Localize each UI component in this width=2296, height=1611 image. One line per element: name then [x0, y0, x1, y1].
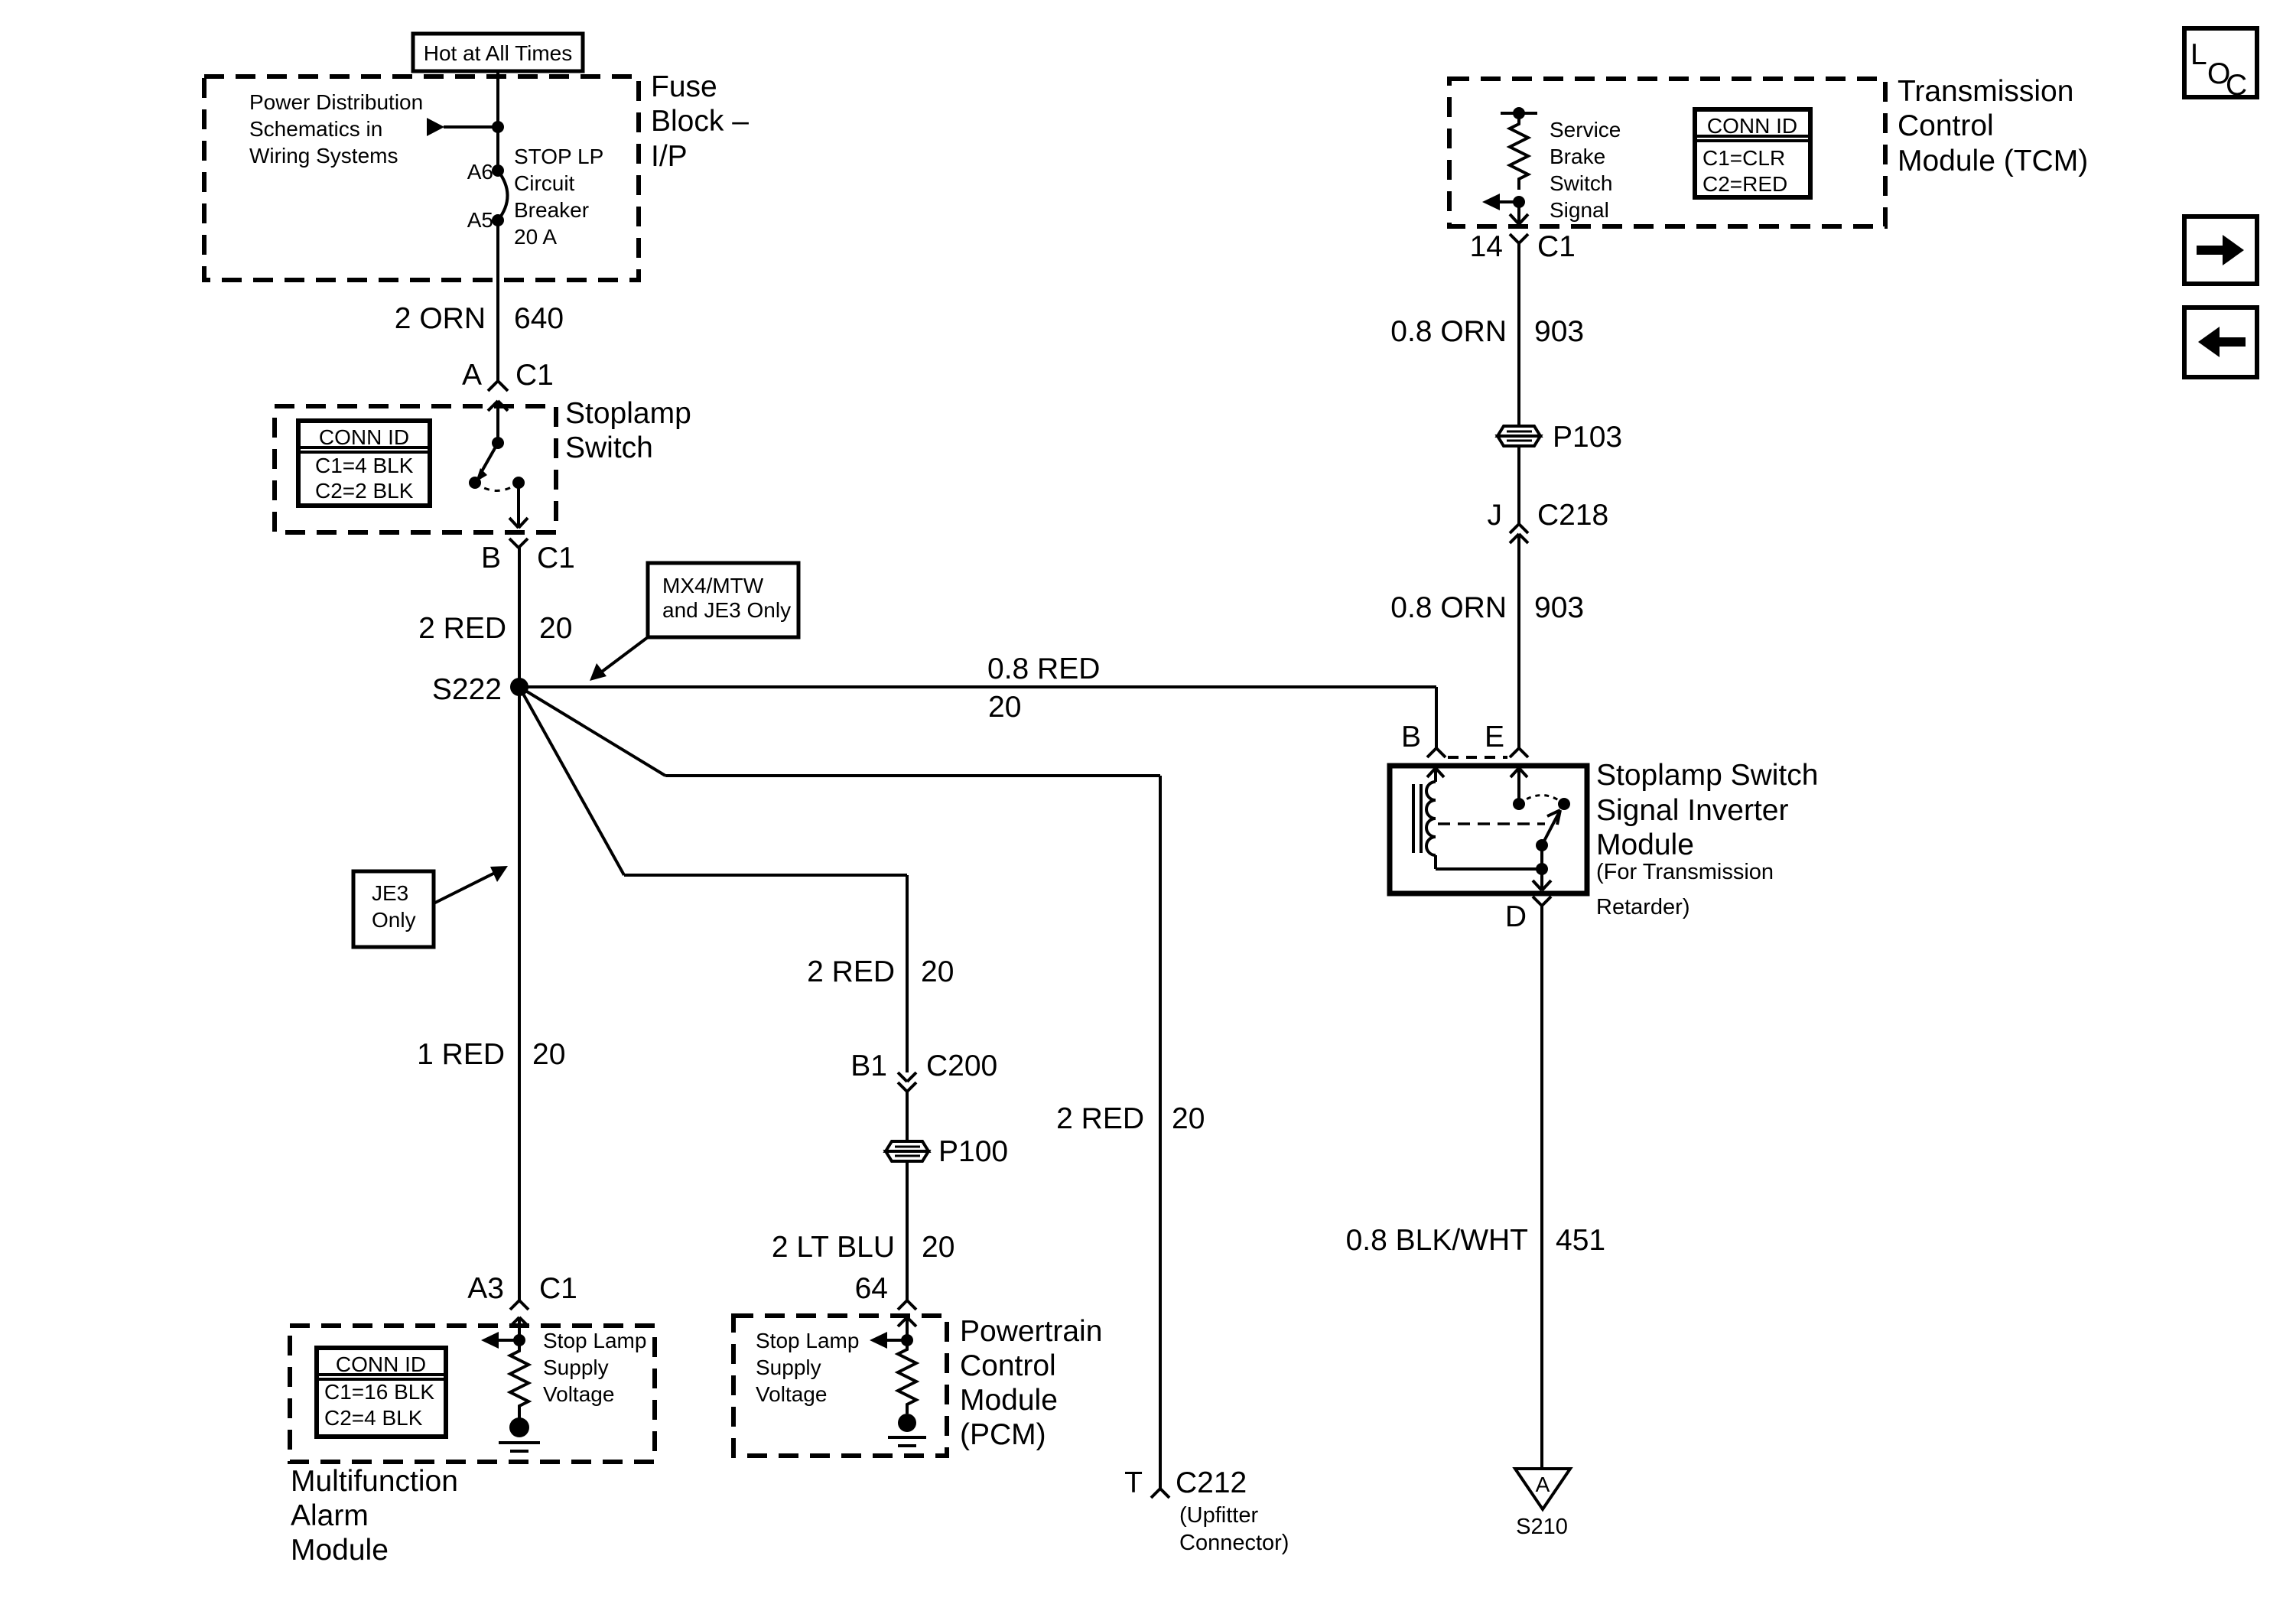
svg-text:CONN ID: CONN ID — [319, 425, 409, 449]
CONN ID table (stoplamp switch) — [298, 421, 430, 506]
svg-text:A: A — [1536, 1473, 1550, 1496]
svg-text:903: 903 — [1534, 315, 1584, 348]
svg-text:E: E — [1485, 721, 1504, 753]
svg-text:Module: Module — [1596, 828, 1694, 861]
connector J / C218 — [1510, 524, 1528, 543]
Multifunction Alarm Module dashed box — [290, 1326, 655, 1462]
svg-text:C1=CLR: C1=CLR — [1702, 146, 1785, 170]
svg-text:A3: A3 — [467, 1272, 504, 1305]
svg-text:0.8 RED: 0.8 RED — [987, 653, 1100, 685]
connector T / C212 — [1151, 1489, 1169, 1498]
wire label 2 RED 20 — [418, 612, 572, 645]
svg-text:20: 20 — [921, 955, 954, 988]
switch contact dot left — [469, 477, 481, 489]
svg-text:Voltage: Voltage — [543, 1382, 614, 1406]
CONN ID table (TCM) — [1695, 109, 1810, 197]
svg-text:20: 20 — [532, 1038, 565, 1071]
svg-text:C1: C1 — [515, 359, 554, 392]
svg-text:Service: Service — [1550, 118, 1621, 142]
svg-text:0.8 BLK/WHT: 0.8 BLK/WHT — [1346, 1224, 1528, 1257]
svg-text:C1: C1 — [539, 1272, 577, 1305]
MX4/MTW and JE3 Only callout box — [648, 563, 798, 637]
svg-text:Stop Lamp: Stop Lamp — [756, 1329, 859, 1352]
label: Service Brake Switch Signal — [1550, 118, 1621, 222]
wire: D down to S210 — [1540, 906, 1543, 1469]
svg-text:D: D — [1505, 900, 1527, 933]
svg-text:A: A — [462, 359, 482, 392]
pass-through grommet P103 — [1498, 426, 1540, 446]
svg-text:20: 20 — [988, 691, 1021, 724]
left arrow legend box — [2184, 308, 2257, 377]
Stoplamp Switch dashed box — [275, 406, 556, 532]
arrow: power distribution reference to wire — [427, 118, 498, 136]
inverter: pivot to common junction — [1540, 845, 1543, 869]
svg-text:(For Transmission: (For Transmission — [1596, 860, 1774, 884]
svg-text:2 RED: 2 RED — [1056, 1102, 1144, 1135]
label: Multifunction Alarm Module — [291, 1465, 458, 1567]
label (Upfitter Connector) — [1179, 1503, 1289, 1555]
inverter: moving contact dot — [1558, 798, 1570, 810]
inverter: E pin arrow inside box — [1511, 768, 1527, 804]
svg-text:Stop Lamp: Stop Lamp — [543, 1329, 646, 1352]
wire: B to S222 — [518, 548, 521, 687]
svg-text:2 LT BLU: 2 LT BLU — [772, 1231, 895, 1264]
svg-text:MX4/MTW: MX4/MTW — [662, 574, 764, 597]
arrow from JE3 box to wire — [434, 866, 508, 903]
dashed connector line between B and E — [1448, 756, 1507, 759]
svg-text:Power Distribution: Power Distribution — [249, 90, 423, 114]
connector B into inverter — [1427, 748, 1446, 757]
label: Powertrain Control Module (PCM) — [960, 1315, 1102, 1451]
svg-text:Multifunction: Multifunction — [291, 1465, 458, 1498]
wire with down arrow to TCM box edge — [1510, 202, 1528, 224]
resistor inside PCM — [898, 1340, 916, 1414]
LOC legend box — [2184, 28, 2257, 102]
svg-text:P103: P103 — [1553, 421, 1622, 454]
splice S222 — [510, 678, 528, 696]
label: Stop Lamp Supply Voltage (alarm module) — [543, 1329, 646, 1406]
right arrow legend box — [2184, 216, 2257, 284]
svg-text:14: 14 — [1470, 230, 1503, 263]
svg-text:Block –: Block – — [651, 105, 749, 138]
svg-text:L: L — [2190, 38, 2207, 71]
wire: C1 down to P103 — [1517, 243, 1520, 426]
svg-text:C1: C1 — [537, 542, 575, 574]
left arrow inside module — [481, 1332, 519, 1349]
wire label 1 RED 20 — [417, 1038, 565, 1071]
svg-text:C200: C200 — [926, 1050, 997, 1082]
connector E into inverter — [1510, 748, 1528, 757]
svg-text:Alarm: Alarm — [291, 1499, 369, 1532]
wire label 0.8 RED / 20 — [987, 653, 1100, 724]
svg-text:Module (TCM): Module (TCM) — [1898, 145, 2088, 177]
svg-text:CONN ID: CONN ID — [336, 1352, 426, 1376]
svg-text:Powertrain: Powertrain — [960, 1315, 1102, 1348]
svg-text:C1: C1 — [1537, 230, 1576, 263]
wire: P103 to J C218 — [1517, 446, 1520, 524]
switch arm with arrowhead — [476, 443, 498, 482]
svg-text:C2=RED: C2=RED — [1702, 172, 1787, 196]
svg-text:Transmission: Transmission — [1898, 75, 2073, 108]
svg-text:T: T — [1124, 1466, 1143, 1499]
wire: S222 down to multifunction alarm module — [518, 687, 521, 1300]
wire: S222 diagonal to C212 branch — [519, 687, 1160, 1489]
inverter: coil core bars — [1413, 784, 1421, 853]
circuit breaker pin A5 — [492, 214, 504, 226]
junction dot inside module — [513, 1334, 525, 1346]
svg-text:2 RED: 2 RED — [807, 955, 895, 988]
Fuse Block I/P dashed box — [204, 76, 639, 280]
svg-text:Signal Inverter: Signal Inverter — [1596, 794, 1788, 827]
wire: A5 to connector A/C1 — [496, 220, 499, 381]
left arrow inside PCM — [870, 1332, 907, 1349]
svg-text:640: 640 — [514, 302, 564, 335]
connector 64 into PCM — [898, 1300, 916, 1340]
svg-text:Supply: Supply — [756, 1356, 821, 1379]
inverter: B pin arrow inside box — [1427, 768, 1444, 782]
svg-text:Switch: Switch — [1550, 171, 1612, 195]
svg-text:CONN ID: CONN ID — [1707, 114, 1797, 138]
svg-text:STOP LP: STOP LP — [514, 145, 603, 168]
svg-text:Module: Module — [291, 1534, 389, 1567]
svg-text:J: J — [1488, 499, 1503, 532]
ground reference triangle A — [1515, 1469, 1570, 1509]
connector B1 / C200 — [898, 1072, 916, 1092]
svg-text:A6: A6 — [467, 160, 493, 184]
svg-text:20 A: 20 A — [514, 225, 557, 249]
inverter: mechanical dashed link — [1438, 822, 1545, 825]
svg-text:0.8 ORN: 0.8 ORN — [1390, 315, 1507, 348]
svg-text:Switch: Switch — [565, 431, 653, 464]
svg-text:Signal: Signal — [1550, 198, 1609, 222]
resistor inside TCM — [1510, 113, 1528, 190]
arrow from MX4 box to S222 wire — [590, 637, 648, 681]
resistor inside multifunction module — [510, 1340, 528, 1418]
svg-text:451: 451 — [1556, 1224, 1605, 1257]
svg-text:903: 903 — [1534, 591, 1584, 624]
svg-text:B: B — [481, 542, 501, 574]
svg-text:20: 20 — [539, 612, 572, 645]
svg-text:Stoplamp Switch: Stoplamp Switch — [1596, 759, 1818, 792]
svg-text:2 RED: 2 RED — [418, 612, 506, 645]
svg-text:(PCM): (PCM) — [960, 1418, 1046, 1451]
switch dashed travel arc — [475, 483, 519, 491]
svg-text:Control: Control — [960, 1349, 1056, 1382]
svg-text:0.8 ORN: 0.8 ORN — [1390, 591, 1507, 624]
CONN ID table (multifunction alarm module) — [317, 1348, 446, 1437]
wire label 2 RED 20 (PCM branch) — [807, 955, 954, 988]
svg-text:and JE3 Only: and JE3 Only — [662, 598, 791, 622]
svg-text:Fuse: Fuse — [651, 70, 717, 103]
TCM internal: top bar and dot — [1501, 107, 1537, 119]
svg-text:1 RED: 1 RED — [417, 1038, 505, 1071]
svg-text:C2=4 BLK: C2=4 BLK — [324, 1406, 423, 1430]
wire label 0.8 BLK/WHT 451 — [1346, 1224, 1605, 1257]
svg-text:S222: S222 — [432, 673, 502, 706]
JE3 Only callout box — [353, 871, 434, 947]
note: Power Distribution Schematics in Wiring Systems — [249, 90, 423, 168]
wire label 2 ORN 640 — [395, 302, 564, 335]
svg-text:B1: B1 — [850, 1050, 887, 1082]
wire label 0.8 ORN 903 (upper) — [1390, 315, 1584, 348]
ground symbol (PCM) — [888, 1414, 926, 1446]
svg-text:C: C — [2226, 69, 2247, 102]
inverter: dashed travel arc — [1519, 796, 1564, 805]
svg-text:Retarder): Retarder) — [1596, 895, 1690, 919]
switch contact dot right — [512, 477, 525, 489]
wire: P100 to PCM pin 64 — [906, 1161, 909, 1300]
Stoplamp Switch Signal Inverter Module box — [1390, 766, 1587, 893]
wire: Hot box to breaker A6 — [496, 71, 499, 171]
svg-text:Only: Only — [372, 908, 416, 932]
label: STOP LP Circuit Breaker 20 A — [514, 145, 603, 249]
wire: C200 to P100 — [906, 1092, 909, 1141]
junction dot inside TCM — [1513, 196, 1525, 208]
svg-text:Supply: Supply — [543, 1356, 609, 1379]
svg-text:(Upfitter: (Upfitter — [1179, 1503, 1258, 1528]
ground symbol — [499, 1417, 540, 1451]
inverter: switch arm with arrowhead — [1542, 810, 1560, 845]
connector B / C1 below switch — [509, 539, 528, 548]
inverter: arm pivot dot — [1536, 839, 1548, 851]
label: Stoplamp Switch Signal Inverter Module — [1596, 759, 1818, 919]
PCM dashed box — [733, 1316, 947, 1456]
wire: S222 horizontal 0.8 RED to inverter B — [519, 687, 1436, 748]
wire label 2 RED 20 (C212 branch) — [1056, 1102, 1205, 1135]
connector D below inverter — [1533, 897, 1551, 906]
svg-text:C1=4 BLK: C1=4 BLK — [315, 454, 414, 477]
svg-text:Circuit: Circuit — [514, 171, 575, 195]
connector A / C1 (fuse block to stoplamp switch) — [488, 381, 508, 443]
Hot at All Times box — [413, 34, 583, 71]
svg-text:P100: P100 — [938, 1135, 1008, 1168]
wire: C218 down to inverter E — [1517, 534, 1520, 748]
label: Stoplamp Switch — [565, 397, 691, 464]
svg-text:Hot at All Times: Hot at All Times — [424, 41, 573, 65]
svg-text:JE3: JE3 — [372, 881, 408, 905]
left arrow inside TCM — [1482, 194, 1519, 210]
svg-text:Voltage: Voltage — [756, 1382, 827, 1406]
svg-text:2 ORN: 2 ORN — [395, 302, 486, 335]
pass-through grommet P100 — [886, 1141, 928, 1161]
svg-text:20: 20 — [1172, 1102, 1205, 1135]
svg-text:Brake: Brake — [1550, 145, 1605, 168]
node: junction dot on wire — [492, 121, 504, 133]
svg-text:I/P: I/P — [651, 140, 688, 173]
circuit breaker arc — [498, 171, 508, 220]
junction dot inside PCM — [901, 1334, 913, 1346]
svg-text:Control: Control — [1898, 109, 1994, 142]
inverter: down arrow to D — [1533, 869, 1551, 890]
svg-text:Schematics in: Schematics in — [249, 117, 382, 141]
svg-text:C2=2 BLK: C2=2 BLK — [315, 479, 414, 503]
wire label 2 LT BLU 20 — [772, 1231, 955, 1264]
connector A3 / C1 (multifunction alarm module) — [510, 1300, 528, 1340]
wire: contact to box edge with down arrow — [509, 483, 528, 528]
connector 14 / C1 below TCM — [1510, 234, 1528, 243]
svg-text:C1=16 BLK: C1=16 BLK — [324, 1380, 434, 1404]
svg-text:Stoplamp: Stoplamp — [565, 397, 691, 430]
svg-text:64: 64 — [855, 1272, 888, 1305]
circuit breaker STOP LP 20A: pin A6 — [492, 164, 504, 177]
inverter: common junction dot — [1536, 863, 1548, 875]
svg-text:C212: C212 — [1176, 1466, 1247, 1499]
wire label 0.8 ORN 903 (lower) — [1390, 591, 1584, 624]
TCM dashed box — [1449, 79, 1885, 226]
inverter: fixed contact dot (E) — [1513, 798, 1525, 810]
svg-text:S210: S210 — [1516, 1515, 1568, 1539]
inverter: relay coil — [1426, 782, 1436, 855]
label: Transmission Control Module (TCM) — [1898, 75, 2088, 177]
svg-text:Connector): Connector) — [1179, 1531, 1289, 1555]
svg-text:B: B — [1401, 721, 1421, 753]
wire: S222 diagonal to PCM branch — [519, 687, 907, 1072]
inverter: coil bottom wire to common — [1436, 855, 1542, 869]
label: Fuse Block - I/P — [651, 70, 749, 173]
svg-text:Breaker: Breaker — [514, 198, 589, 222]
label: Stop Lamp Supply Voltage (PCM) — [756, 1329, 859, 1406]
svg-text:Wiring Systems: Wiring Systems — [249, 144, 398, 168]
switch: pivot dot — [492, 437, 504, 449]
svg-text:Module: Module — [960, 1384, 1058, 1417]
svg-text:A5: A5 — [467, 208, 493, 232]
svg-text:C218: C218 — [1537, 499, 1608, 532]
svg-text:20: 20 — [922, 1231, 954, 1264]
